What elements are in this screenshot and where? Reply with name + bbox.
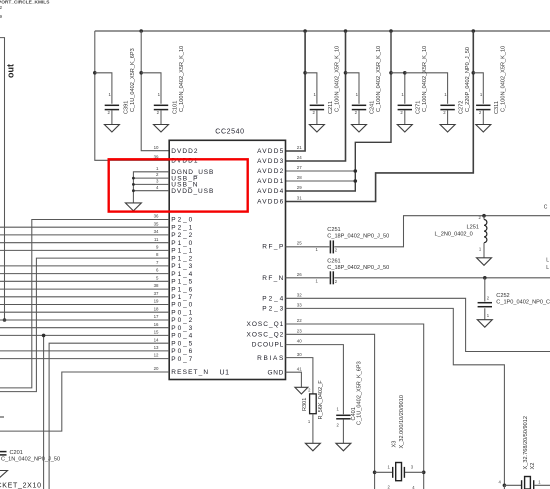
svg-text:30: 30: [297, 352, 302, 357]
svg-text:PORT_CIRCLE_KMILS: PORT_CIRCLE_KMILS: [0, 0, 50, 5]
wire X2 right: [534, 484, 550, 486]
svg-text:15: 15: [154, 330, 159, 335]
wire XOSC_Q1 to X3: [286, 324, 424, 489]
ground C211: [309, 125, 324, 133]
svg-text:41: 41: [297, 366, 302, 371]
highlight red rectangle over USB pins: [109, 159, 248, 211]
svg-text:L251: L251: [467, 224, 479, 230]
svg-text:L: L: [546, 265, 549, 271]
svg-text:28: 28: [297, 175, 302, 180]
wire L251 to gnd: [483, 243, 485, 258]
wire C252 to gnd: [484, 308, 486, 319]
svg-text:37: 37: [154, 291, 159, 296]
wire RF_P to C251: [286, 246, 330, 248]
svg-text:36: 36: [154, 214, 159, 219]
junction AVDD1: [354, 179, 358, 183]
wire AVDD4 staircase: [286, 31, 392, 191]
inductor L251: [484, 220, 487, 243]
wire P0_2 to left edge: [0, 319, 169, 321]
svg-text:C: C: [544, 205, 548, 211]
junction rail x=473.3: [472, 29, 476, 33]
wire top power rail: [95, 30, 550, 32]
wire RBIAS to R301: [286, 358, 313, 394]
svg-text:23: 23: [297, 329, 302, 334]
wire P1_0 to left edge: [0, 242, 169, 244]
wire P2_3 to X2: [286, 308, 505, 485]
svg-text:C_1U_0402_X5R_K_6P3: C_1U_0402_X5R_K_6P3: [357, 361, 363, 425]
svg-text:12: 12: [154, 353, 159, 358]
svg-text:C_1P0_0402_NP0_C_: C_1P0_0402_NP0_C_: [496, 300, 550, 306]
wire P0_7 to left edge: [0, 358, 169, 360]
svg-text:18: 18: [154, 306, 159, 311]
capacitor C272: [440, 104, 454, 106]
svg-text:34: 34: [154, 229, 159, 234]
junction USB_N: [132, 183, 135, 186]
svg-text:24: 24: [297, 155, 302, 160]
wire P0_0 to left edge: [0, 304, 169, 306]
wire P2_0 down-left: [0, 220, 169, 388]
wire P1_3 to left edge: [0, 265, 169, 267]
ground U1 GND: [295, 387, 308, 394]
svg-text:L_2N0_0402_0: L_2N0_0402_0: [435, 232, 473, 238]
svg-text:L: L: [546, 258, 549, 264]
capacitor C252: [478, 302, 492, 304]
capacitor C271: [398, 104, 412, 106]
svg-text:C_220P_0402_NP0_J_50: C_220P_0402_NP0_J_50: [465, 47, 471, 112]
svg-text:35: 35: [154, 221, 159, 226]
wire P2_2 to left edge: [0, 234, 169, 236]
wire XOSC_Q2 to X3: [286, 334, 375, 489]
wire RF_P to L251 rail: [334, 216, 550, 247]
wire X2 left: [504, 484, 521, 486]
svg-text:32: 32: [297, 293, 302, 298]
svg-text:U1: U1: [220, 369, 230, 376]
svg-text:C_18P_0402_NP0_J_50: C_18P_0402_NP0_J_50: [327, 234, 389, 240]
wire to C272: [405, 73, 448, 104]
wire to C311: [473, 73, 483, 104]
svg-text:29: 29: [297, 185, 302, 190]
wire P0_4 branch down: [43, 335, 45, 489]
wire DVDD1 column: [95, 31, 169, 160]
svg-text:R301: R301: [302, 398, 308, 411]
svg-text:C_1N_0402_NP0_J_50: C_1N_0402_NP0_J_50: [1, 457, 60, 463]
wire C211 to gnd: [316, 110, 318, 124]
junction USB_P: [132, 177, 135, 180]
junction C241 tap: [344, 71, 348, 75]
wire to C101: [141, 73, 161, 104]
svg-text:X2: X2: [530, 463, 536, 470]
svg-text:11: 11: [154, 237, 159, 242]
wire P0_5 down: [49, 343, 169, 489]
wire X3 right: [404, 471, 423, 473]
svg-text:C261: C261: [327, 259, 340, 265]
wire AVDD5 column: [286, 31, 306, 151]
svg-text:C272: C272: [458, 101, 464, 114]
wire RESET_N down-left: [0, 372, 169, 431]
svg-text:16: 16: [154, 322, 159, 327]
capacitor C391: [105, 104, 119, 106]
svg-text:CC2540: CC2540: [215, 128, 244, 135]
wire C391 to gnd: [111, 110, 113, 124]
svg-text:C_100N_0402_X5R_K_10: C_100N_0402_X5R_K_10: [179, 46, 185, 112]
mark left edge: [0, 416, 4, 418]
svg-text:14: 14: [154, 337, 159, 342]
svg-text:out: out: [6, 64, 16, 78]
junction C271 tap: [389, 71, 393, 75]
svg-text:RESET_N: RESET_N: [171, 369, 208, 376]
junction C311 tap: [472, 71, 476, 75]
wire P2_1 to left edge: [0, 226, 169, 228]
wire P2_4 to right edge: [286, 298, 550, 351]
svg-text:C311: C311: [494, 101, 500, 114]
wire to C252: [484, 278, 486, 302]
svg-text:22: 22: [297, 318, 302, 323]
wire to C271: [391, 73, 405, 104]
wire DVDD_USB: [133, 190, 169, 192]
crystal X2: [521, 480, 523, 489]
svg-text:XOSC_Q2: XOSC_Q2: [247, 332, 284, 339]
wire P1_6 to left edge: [0, 288, 169, 290]
junction C271/C272: [403, 71, 407, 75]
wire RF_N to right edge: [334, 277, 550, 279]
svg-text:GND: GND: [268, 369, 284, 376]
wire X3 left: [375, 471, 393, 473]
junction rail x=305.1: [303, 29, 307, 33]
svg-text:DVDD2: DVDD2: [171, 148, 198, 155]
wire P1_5 to left edge: [0, 280, 169, 282]
junction P0_4: [42, 334, 46, 338]
wire DCOUPL to C401: [286, 345, 344, 415]
svg-text:C241: C241: [370, 101, 376, 114]
junction L251: [482, 214, 486, 218]
junction AVDD2: [354, 169, 358, 173]
capacitor C201 (cut at edge): [0, 451, 7, 453]
svg-text:C_100N_0402_X5R_K_10: C_100N_0402_X5R_K_10: [335, 46, 341, 112]
wire P0_4 to left edge: [0, 334, 169, 336]
wire P1_1 to left edge: [0, 249, 169, 251]
wire P1_7 to left edge: [0, 296, 169, 298]
IC U1 CC2540 body: [169, 140, 285, 379]
svg-text:RF_N: RF_N: [262, 275, 283, 282]
wire P0_6 to left edge: [0, 350, 169, 352]
junction DVDD_USB: [132, 189, 135, 192]
wire to C211: [305, 73, 317, 104]
svg-text:C251: C251: [327, 227, 340, 233]
wire P1_2 down-left: [0, 258, 169, 392]
junction rail x=345.5: [344, 29, 348, 33]
svg-text:C391: C391: [123, 101, 129, 114]
wire USB_N: [133, 183, 169, 185]
svg-text:26: 26: [297, 272, 302, 277]
wire GND pin: [286, 372, 302, 387]
svg-text:19: 19: [154, 299, 159, 304]
svg-text:X_32.768/20/50/9012: X_32.768/20/50/9012: [523, 416, 529, 470]
ground C271: [397, 125, 412, 133]
wire C101 to gnd: [160, 110, 162, 124]
capacitor C241: [352, 104, 366, 106]
svg-text:C_1U_0402_X5R_K_6P3: C_1U_0402_X5R_K_6P3: [130, 48, 136, 112]
capacitor C261 (series): [329, 271, 331, 284]
wire C271 to gnd: [404, 110, 406, 124]
wire C272 to gnd: [447, 110, 449, 124]
wire X2 stub down: [503, 485, 505, 489]
junction rail x=141.2: [139, 29, 143, 33]
svg-text:SOCKET_2X10: SOCKET_2X10: [0, 483, 42, 489]
svg-text:C252: C252: [496, 293, 509, 299]
ground C252: [477, 320, 492, 328]
wire to C241: [346, 73, 360, 104]
svg-text:C_100N_0402_X5R_K_10: C_100N_0402_X5R_K_10: [376, 46, 382, 112]
wire AVDD6 staircase: [286, 31, 474, 202]
junction P0_2/out: [3, 318, 7, 322]
crystal X3: [392, 467, 394, 478]
wire AVDD3 column: [286, 31, 346, 161]
svg-text:C271: C271: [416, 101, 422, 114]
svg-text:33: 33: [297, 303, 302, 308]
svg-text:XOSC_Q1: XOSC_Q1: [247, 321, 284, 328]
wire to C391: [95, 73, 112, 104]
svg-text:DVDD_USB: DVDD_USB: [171, 188, 213, 195]
capacitor C211: [310, 104, 324, 106]
ground USB group: [125, 203, 141, 211]
svg-text:21: 21: [297, 145, 302, 150]
wire R301 to gnd: [312, 414, 314, 444]
ground R301: [305, 443, 320, 451]
svg-text:DCOUPL: DCOUPL: [252, 342, 284, 349]
svg-text:17: 17: [154, 314, 159, 319]
junction C252: [483, 276, 487, 280]
wire net out (left edge down to P0_2): [0, 38, 5, 320]
svg-text:X_32.000/10/20/9010: X_32.000/10/20/9010: [399, 395, 405, 449]
svg-text:40: 40: [297, 339, 302, 344]
wire C311 to gnd: [482, 110, 484, 124]
ground L251: [477, 258, 492, 266]
svg-text:20: 20: [154, 366, 159, 371]
svg-text:C101: C101: [173, 101, 179, 114]
junction X3 pin3: [422, 471, 426, 475]
svg-text:X3: X3: [392, 441, 398, 448]
junction rail x=391: [389, 29, 393, 33]
wire AVDD2: [286, 170, 356, 172]
ground C101: [154, 125, 169, 133]
junction C101 tap: [139, 71, 143, 75]
svg-text:C_100N_0402_X5R_K_10: C_100N_0402_X5R_K_10: [501, 46, 507, 112]
svg-text:25: 25: [297, 241, 302, 246]
capacitor C251 (series): [329, 240, 331, 253]
ground C272: [440, 125, 455, 133]
svg-text:R_56K_0402_F: R_56K_0402_F: [318, 380, 324, 420]
junction C391 tap: [93, 71, 97, 75]
wire P1_4 to left edge: [0, 273, 169, 275]
ground C401: [336, 443, 351, 451]
junction X3 pin1: [373, 471, 377, 475]
ground C241: [352, 125, 367, 133]
capacitor C401: [336, 414, 350, 416]
svg-text:27: 27: [297, 165, 302, 170]
wire P0_3 to left edge: [0, 327, 169, 329]
ground C391: [104, 125, 119, 133]
svg-text:C_18P_0402_NP0_J_50: C_18P_0402_NP0_J_50: [327, 265, 389, 271]
svg-text:10: 10: [154, 145, 159, 150]
wire C401 to gnd: [342, 420, 344, 444]
wire L251 top: [483, 216, 485, 220]
wire DGND_USB: [133, 172, 169, 203]
wire C241 to gnd: [358, 110, 360, 124]
svg-text:RBIAS: RBIAS: [257, 355, 284, 362]
svg-text:31: 31: [297, 196, 302, 201]
svg-text:C_100N_0402_X5R_K_10: C_100N_0402_X5R_K_10: [422, 46, 428, 112]
wire USB_P: [133, 177, 169, 179]
capacitor C101: [154, 104, 168, 106]
svg-text:13: 13: [154, 345, 159, 350]
wire AVDD1: [286, 180, 356, 182]
wire RF_N to C261: [286, 277, 330, 279]
junction C211 tap: [303, 71, 307, 75]
svg-text:38: 38: [154, 283, 159, 288]
junction X2 pin4: [503, 484, 507, 488]
ground fragment bottom left: [0, 471, 8, 479]
wire DVDD2 column: [141, 31, 169, 151]
ground C311: [476, 125, 491, 133]
resistor R301: [310, 394, 317, 414]
svg-text:C211: C211: [328, 101, 334, 114]
wire P0_1 to left edge: [0, 311, 169, 313]
capacitor C311: [476, 104, 490, 106]
svg-text:C201: C201: [10, 450, 23, 456]
